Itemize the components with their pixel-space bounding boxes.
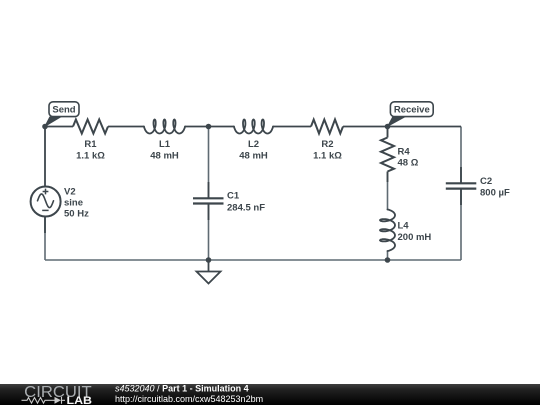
svg-text:800 µF: 800 µF (480, 188, 510, 199)
wire: left rail lower (below V2) (44, 217, 46, 261)
resistor R1 (73, 120, 108, 134)
svg-text:48 mH: 48 mH (150, 151, 179, 162)
svg-text:Receive: Receive (394, 105, 430, 116)
svg-text:C1: C1 (227, 191, 240, 202)
node: bottom of L4 (385, 257, 391, 263)
svg-text:L4: L4 (398, 221, 410, 232)
svg-text:1.1 kΩ: 1.1 kΩ (313, 151, 342, 162)
svg-text:R1: R1 (84, 139, 97, 150)
node A (Send) (42, 124, 48, 130)
voltage source V2 (31, 187, 61, 217)
node: ground junction (206, 257, 212, 263)
resistor R4 (381, 138, 394, 172)
svg-text:s4532040 / Part 1 - Simulation: s4532040 / Part 1 - Simulation 4 (115, 384, 249, 394)
node C (Receive) (385, 124, 391, 130)
svg-text:L2: L2 (248, 139, 259, 150)
wire: bottom rail (45, 259, 461, 261)
capacitor C2 (446, 167, 477, 205)
svg-text:L1: L1 (159, 139, 171, 150)
svg-text:200 mH: 200 mH (398, 232, 432, 243)
wire: left rail upper (node A down to V2) (44, 127, 46, 234)
wire: middle branch (node B to C1, C1 to bottom) (208, 127, 210, 261)
svg-text:V2: V2 (64, 186, 76, 197)
resistor R2 (311, 120, 343, 134)
svg-text:R2: R2 (321, 139, 333, 150)
inductor L1 (144, 120, 185, 134)
logo diode triangle (55, 397, 62, 404)
svg-text:Send: Send (52, 105, 75, 116)
inductor L2 (234, 120, 273, 134)
svg-text:http://circuitlab.com/cxw54825: http://circuitlab.com/cxw548253n2bm (115, 394, 263, 404)
svg-text:R4: R4 (398, 146, 411, 157)
svg-text:1.1 kΩ: 1.1 kΩ (76, 151, 105, 162)
ground (197, 260, 221, 284)
capacitor C1 (193, 182, 224, 220)
footer title text (115, 384, 263, 404)
svg-text:48 mH: 48 mH (239, 151, 268, 162)
node label Receive (388, 102, 433, 127)
logo resistor squiggle (22, 397, 66, 404)
wire: right middle branch (node C through R4/L4 area) (387, 127, 389, 261)
svg-text:C2: C2 (480, 176, 492, 187)
svg-text:sine: sine (64, 198, 83, 209)
inductor L4 (380, 210, 395, 252)
node B (top of C1) (206, 124, 212, 130)
wire: right rail (460, 127, 462, 261)
svg-text:48 Ω: 48 Ω (398, 158, 419, 169)
svg-text:50 Hz: 50 Hz (64, 209, 89, 220)
wire: top rail (45, 126, 461, 128)
svg-text:LAB: LAB (67, 395, 93, 405)
node label Send (45, 102, 79, 127)
svg-text:284.5 nF: 284.5 nF (227, 202, 265, 213)
